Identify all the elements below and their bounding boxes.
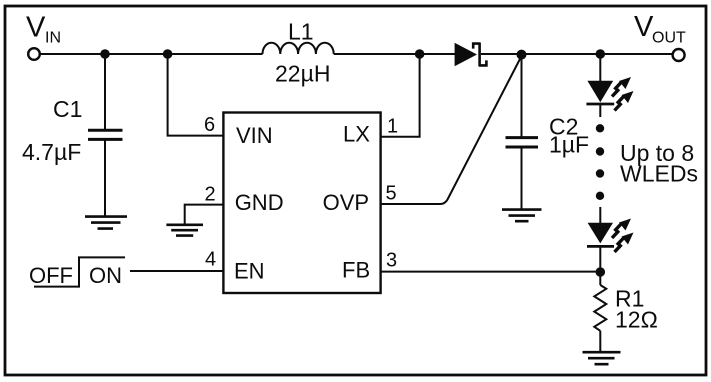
svg-text:1: 1 [387, 116, 398, 138]
svg-text:OVP: OVP [323, 190, 369, 215]
diode D1 schottky cathode bar [473, 43, 486, 66]
wire inductor to diode [334, 53, 455, 55]
svg-text:L1: L1 [288, 19, 314, 45]
wire FB node to resistor [599, 272, 601, 285]
wire pin 1 to LX tap [381, 54, 420, 137]
svg-text:GND: GND [235, 190, 284, 215]
wire diode to VOUT terminal [481, 53, 673, 55]
svg-text:22µH: 22µH [275, 61, 330, 87]
svg-text:C1: C1 [53, 96, 82, 122]
svg-text:5: 5 [386, 183, 397, 205]
svg-text:12Ω: 12Ω [615, 307, 658, 333]
svg-text:V: V [26, 12, 46, 44]
svg-text:2: 2 [205, 184, 216, 206]
wire LED1 anode lead [599, 54, 601, 81]
svg-text:VIN: VIN [236, 123, 273, 148]
junction dot VIN-pin tap [163, 49, 173, 59]
junction dot LX tap [415, 49, 425, 59]
ground R1 [583, 352, 621, 364]
svg-text:IN: IN [45, 30, 61, 47]
terminal VIN [28, 48, 40, 60]
wire pin 2 to ground [185, 205, 224, 225]
wire pin 5 OVP diagonal [381, 56, 522, 204]
svg-text:V: V [634, 11, 654, 43]
svg-text:LX: LX [343, 122, 370, 147]
wire EN pin to ON/OFF source [130, 270, 223, 272]
wire VIN tap to pin 6 [168, 54, 224, 136]
wire C2 upper lead [521, 54, 523, 137]
junction dot FB node [596, 267, 606, 277]
LED D2 triangle [587, 81, 613, 102]
diode D1 triangle [455, 43, 477, 66]
wire LED2 cathode lead [599, 246, 601, 272]
ground GND pin [166, 225, 203, 236]
svg-text:3: 3 [386, 250, 397, 272]
wire top from VIN terminal to inductor [40, 53, 262, 55]
wire LED2 anode lead [599, 207, 601, 223]
junction dot LED string tap [596, 49, 606, 59]
svg-text:1µF: 1µF [549, 132, 589, 158]
capacitor C1 plates [88, 130, 123, 139]
svg-text:4.7µF: 4.7µF [22, 139, 81, 165]
wire C1 lower lead [104, 139, 106, 216]
signal step OFF/ON [34, 257, 125, 286]
svg-text:OUT: OUT [652, 30, 686, 47]
resistor R1 zigzag [594, 285, 606, 331]
ground C2 [502, 210, 542, 222]
wire LED1 to dots [599, 104, 601, 117]
LED D3 arrows [612, 219, 634, 253]
wire C2 lower lead [521, 147, 523, 209]
svg-text:WLEDs: WLEDs [620, 161, 698, 187]
svg-text:ON: ON [89, 263, 122, 288]
svg-text:6: 6 [204, 114, 215, 136]
dots ellipsis LED string [596, 124, 604, 200]
IC U1 body [223, 113, 380, 294]
capacitor C2 plates [506, 138, 539, 147]
terminal VOUT [673, 49, 685, 61]
LED D3 cathode bar [587, 245, 614, 248]
svg-text:4: 4 [205, 249, 216, 271]
wire R1 to ground [599, 331, 601, 352]
svg-text:FB: FB [342, 258, 370, 283]
LED D2 cathode bar [586, 103, 614, 106]
inductor L1 [263, 43, 334, 54]
junction dot C1 tap [100, 49, 110, 59]
wire C1 upper lead [104, 54, 106, 130]
junction dot OVP/C2 node [517, 50, 527, 60]
svg-text:EN: EN [234, 259, 265, 284]
LED D3 triangle [588, 223, 613, 244]
svg-text:OFF: OFF [29, 263, 73, 288]
LED D2 arrows [612, 77, 634, 111]
wire pin 3 FB to LED string bottom [381, 271, 601, 273]
ground C1 [85, 217, 127, 229]
